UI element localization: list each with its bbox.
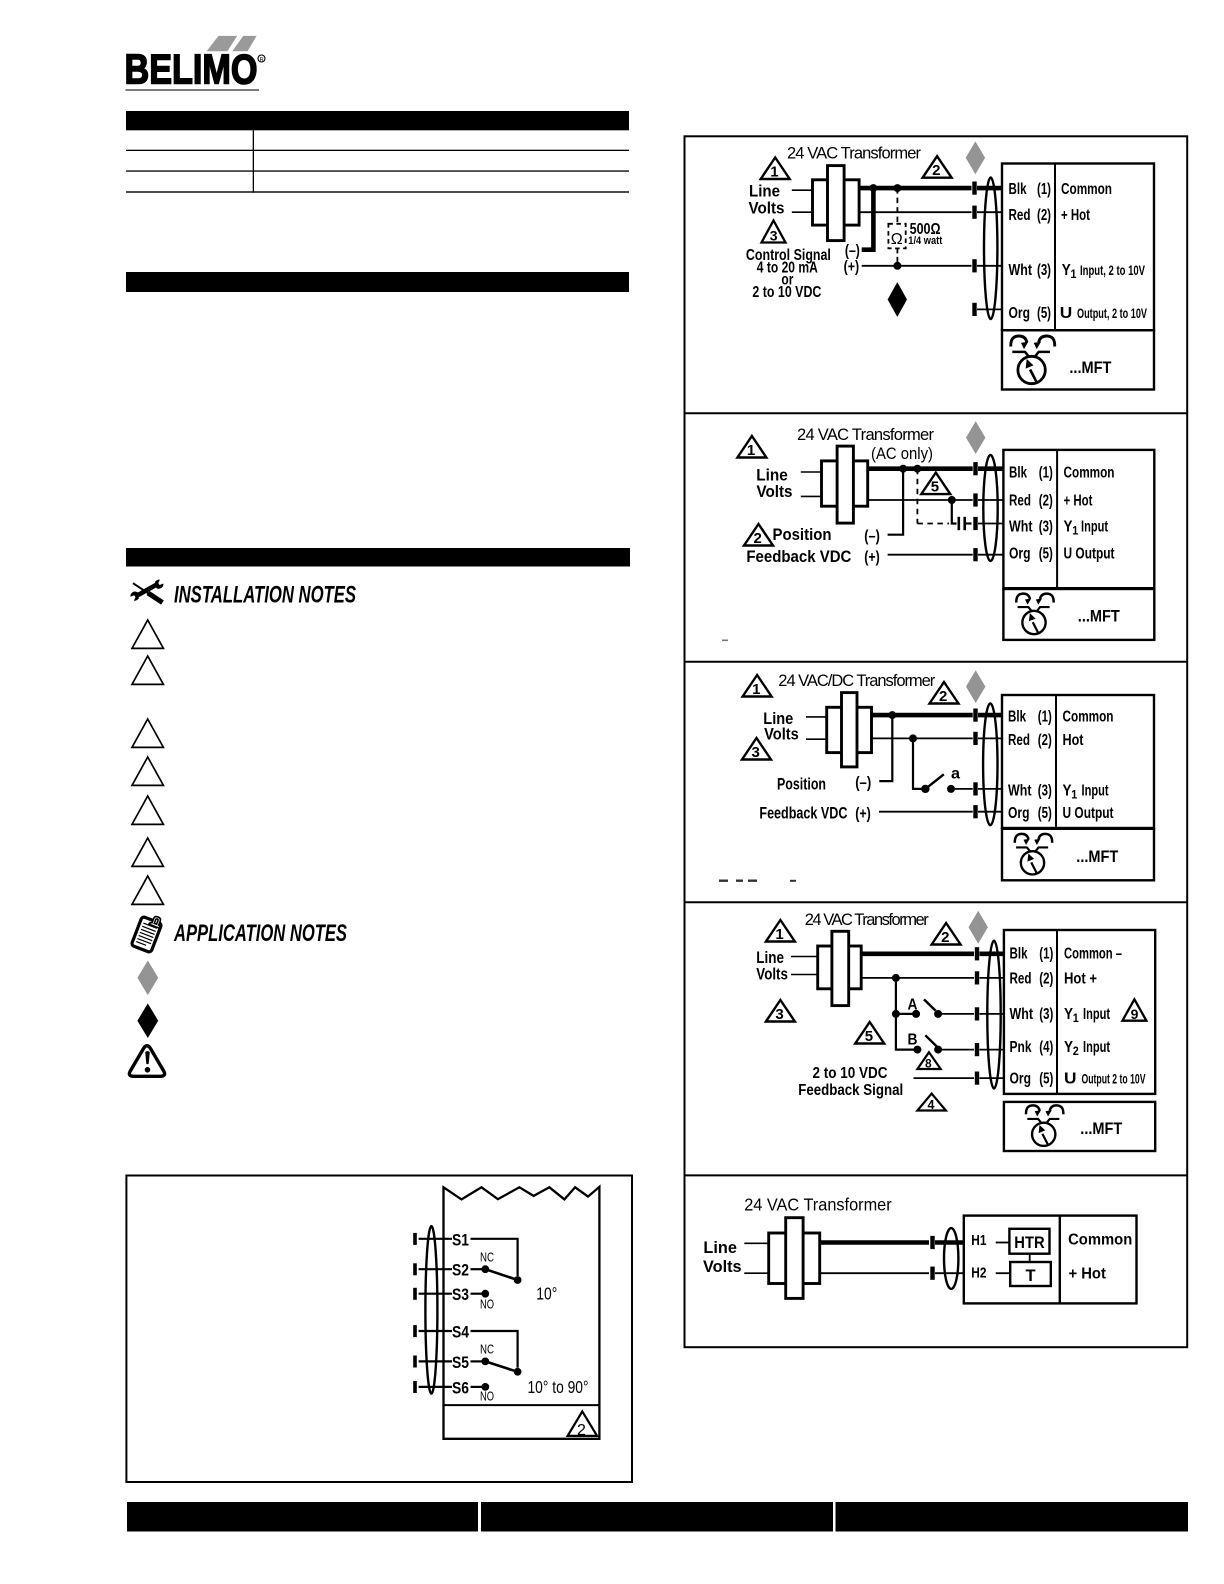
D1 black diamond bbox=[888, 282, 907, 317]
svg-text:HTR: HTR bbox=[1014, 1234, 1044, 1252]
wire S1 to switch 1 common bbox=[471, 1239, 518, 1276]
wiring diagrams outer frame bbox=[685, 136, 1188, 1347]
D4 junction dot b bbox=[892, 1010, 900, 1018]
note triangle 3 bbox=[132, 719, 163, 747]
svg-text:(5): (5) bbox=[1039, 1070, 1053, 1087]
svg-text:H2: H2 bbox=[971, 1265, 986, 1282]
terminal mark S4 bbox=[413, 1325, 417, 1337]
svg-text:S5: S5 bbox=[452, 1353, 469, 1372]
svg-text:9: 9 bbox=[1131, 1006, 1139, 1022]
wire S6 bbox=[419, 1386, 452, 1388]
actuator bottom divider line bbox=[444, 1404, 601, 1406]
D3 wire 24V common bbox=[872, 737, 973, 739]
svg-text:1: 1 bbox=[775, 926, 783, 943]
logo registered mark bbox=[258, 55, 265, 62]
svg-text:(+): (+) bbox=[864, 549, 880, 566]
D5 wire H2 to T bbox=[996, 1272, 1011, 1274]
actuator body with torn-paper top edge bbox=[444, 1187, 600, 1439]
D1 wire control plus bbox=[862, 265, 972, 267]
svg-text:(–): (–) bbox=[845, 242, 860, 259]
logo underline bbox=[126, 89, 260, 90]
note triangle 5 bbox=[132, 796, 163, 824]
D4 cable oval bbox=[987, 941, 1000, 1089]
svg-text:8: 8 bbox=[925, 1057, 932, 1071]
svg-text:Volts: Volts bbox=[756, 965, 788, 984]
svg-text:Input: Input bbox=[1082, 782, 1109, 799]
switch 2 NO contact dot bbox=[481, 1383, 489, 1391]
D4 wire to switch A bbox=[896, 1013, 913, 1015]
D1 MFT box bbox=[1002, 330, 1154, 389]
svg-text:APPLICATION NOTES: APPLICATION NOTES bbox=[173, 920, 347, 947]
footer bar segment 3 bbox=[836, 1502, 1189, 1532]
wire S2 bbox=[419, 1268, 452, 1270]
D5 wire 24V common bbox=[820, 1272, 929, 1274]
svg-text:5: 5 bbox=[865, 1028, 873, 1045]
wire S3 bbox=[419, 1293, 452, 1295]
D3 transformer T1 bbox=[827, 693, 872, 767]
svg-text:Common –: Common – bbox=[1064, 946, 1122, 963]
D4 wire 24V common bbox=[861, 977, 974, 979]
clipboard icon bbox=[131, 912, 164, 953]
svg-text:Input: Input bbox=[1083, 1039, 1110, 1056]
D2 triangle 5 bbox=[921, 473, 950, 496]
screwdriver bbox=[133, 583, 149, 594]
D4 wire stub red bbox=[980, 977, 1004, 979]
svg-text:1/4 watt: 1/4 watt bbox=[908, 235, 942, 247]
svg-text:Org: Org bbox=[1008, 805, 1030, 822]
D3 switch contact dot bbox=[947, 785, 955, 793]
svg-text:Common: Common bbox=[1061, 181, 1112, 198]
wire S5 stub bbox=[471, 1360, 483, 1362]
D1 transformer T1 bbox=[813, 166, 860, 241]
D5 transformer T1 bbox=[769, 1218, 820, 1299]
svg-text:...MFT: ...MFT bbox=[1076, 847, 1119, 866]
D4 wire feedback bbox=[914, 1077, 975, 1079]
svg-text:(5): (5) bbox=[1039, 546, 1053, 563]
D4 wire stub blk bbox=[980, 951, 1004, 956]
table row line 3 bbox=[126, 191, 629, 192]
terminal mark S6 bbox=[413, 1381, 417, 1393]
D5 wire H1 to HTR bbox=[996, 1242, 1010, 1244]
wire S5 bbox=[419, 1360, 452, 1362]
svg-text:NC: NC bbox=[480, 1249, 494, 1264]
svg-text:Volts: Volts bbox=[757, 482, 793, 501]
frame divider 4-5 bbox=[685, 1174, 1188, 1176]
D4 triangle 2 bbox=[932, 923, 961, 946]
D2 cable oval bbox=[983, 455, 997, 561]
note triangle 1 bbox=[132, 620, 163, 648]
D3 terminal block divider bbox=[1055, 695, 1057, 828]
svg-text:24 VAC Transformer: 24 VAC Transformer bbox=[805, 911, 930, 929]
switch 2 blade contact dot bbox=[514, 1368, 522, 1376]
BELIMO logo bbox=[125, 36, 266, 93]
svg-text:(–): (–) bbox=[855, 775, 871, 792]
svg-text:U Output: U Output bbox=[1063, 805, 1115, 822]
svg-text:10° to 90°: 10° to 90° bbox=[528, 1377, 589, 1397]
switch 2 blade bbox=[485, 1361, 517, 1371]
D4 triangle 9 bbox=[1122, 999, 1146, 1022]
D3 wire volts-in bbox=[806, 738, 827, 740]
D5 cable oval bbox=[944, 1228, 958, 1289]
note triangle 6 bbox=[132, 838, 163, 866]
D3 triangle 3 bbox=[742, 738, 771, 761]
D3 junction dot a bbox=[888, 711, 896, 719]
D2 wire 24V hot (thick) bbox=[868, 466, 973, 471]
D4 wire switch bus vertical bbox=[896, 978, 914, 1050]
svg-text:Input: Input bbox=[1083, 1006, 1110, 1023]
D3 switch blade bbox=[925, 774, 943, 789]
wrench jaw bottom-left bbox=[130, 591, 138, 600]
svg-text:Feedback Signal: Feedback Signal bbox=[798, 1082, 903, 1099]
svg-text:(3): (3) bbox=[1039, 1006, 1053, 1023]
svg-text:U Output: U Output bbox=[1064, 546, 1116, 563]
D2 terminal bar 5 bbox=[973, 548, 977, 561]
svg-text:1: 1 bbox=[1072, 524, 1078, 538]
D1 MFT dial icon bbox=[1011, 336, 1055, 384]
D3 terminal bar 2 bbox=[973, 732, 977, 745]
D2 wire feedback plus bbox=[888, 554, 973, 556]
D5 wire volts-in bbox=[744, 1272, 768, 1274]
svg-text:S3: S3 bbox=[452, 1285, 469, 1304]
svg-text:(+): (+) bbox=[855, 806, 871, 823]
D3 wire stub red bbox=[978, 737, 1002, 739]
svg-text:(1): (1) bbox=[1039, 464, 1053, 481]
D4 terminal block bbox=[1004, 930, 1155, 1094]
D1 triangle 3 bbox=[762, 221, 786, 244]
D5 wire HTR to T bbox=[1029, 1254, 1031, 1262]
svg-text:T: T bbox=[1026, 1267, 1036, 1285]
D4 triangle 5 bbox=[855, 1022, 884, 1045]
svg-text:Wht: Wht bbox=[1008, 782, 1032, 799]
D1 triangle 2 bbox=[923, 156, 952, 179]
D3 triangle 2 bbox=[930, 682, 959, 705]
svg-text:Org: Org bbox=[1009, 305, 1031, 322]
svg-text:Hot: Hot bbox=[1063, 732, 1085, 749]
terminal mark S5 bbox=[413, 1356, 417, 1368]
D2 wire line-in bbox=[801, 471, 822, 473]
D4 wire line-in bbox=[791, 956, 818, 958]
svg-text:24 VAC Transformer: 24 VAC Transformer bbox=[787, 145, 922, 163]
section bar 3 (redacted) bbox=[126, 548, 630, 567]
D3 wire position minus bbox=[879, 715, 892, 781]
svg-text:Blk: Blk bbox=[1009, 464, 1027, 481]
svg-text:U: U bbox=[1064, 1070, 1077, 1087]
svg-text:Wht: Wht bbox=[1010, 1006, 1034, 1023]
svg-text:5: 5 bbox=[931, 479, 939, 496]
svg-text:2 to 10 VDC: 2 to 10 VDC bbox=[752, 284, 821, 301]
D2 junction dot b bbox=[913, 465, 921, 473]
installation tools icon bbox=[130, 580, 163, 603]
svg-text:24 VAC Transformer: 24 VAC Transformer bbox=[744, 1194, 892, 1214]
D2 wire feedback tap bbox=[952, 500, 957, 524]
D4 switch B common dot bbox=[913, 1046, 921, 1054]
svg-text:(1): (1) bbox=[1038, 709, 1052, 726]
svg-text:(5): (5) bbox=[1037, 305, 1051, 322]
footer bar segment 1 bbox=[127, 1502, 478, 1532]
D3 wire 24V hot (thick) bbox=[872, 713, 973, 718]
svg-text:(AC only): (AC only) bbox=[871, 445, 933, 463]
svg-text:10°: 10° bbox=[536, 1284, 557, 1304]
table column divider bbox=[253, 130, 254, 192]
svg-text:(4): (4) bbox=[1039, 1039, 1053, 1056]
D5 wire stub h2 bbox=[935, 1272, 964, 1274]
svg-text:(2): (2) bbox=[1039, 971, 1053, 988]
header bar (redacted title) bbox=[126, 111, 629, 130]
svg-text:Red: Red bbox=[1010, 971, 1032, 988]
svg-text:2: 2 bbox=[932, 162, 940, 179]
D2 terminal bar 2 bbox=[973, 493, 977, 506]
svg-text:Wht: Wht bbox=[1009, 262, 1033, 279]
svg-text:+ Hot: + Hot bbox=[1064, 492, 1093, 509]
svg-text:Red: Red bbox=[1009, 492, 1031, 509]
D5 wire 24V hot (thick) bbox=[820, 1240, 929, 1245]
D4 MFT dial icon bbox=[1026, 1105, 1063, 1146]
D2 splice bar 1 bbox=[958, 517, 961, 530]
D2 terminal block divider bbox=[1056, 450, 1058, 588]
logo stripe 1 bbox=[207, 36, 238, 51]
svg-text:(2): (2) bbox=[1038, 732, 1052, 749]
svg-text:24 VAC Transformer: 24 VAC Transformer bbox=[797, 426, 935, 444]
D4 terminal bar 1 bbox=[975, 947, 979, 960]
svg-text:Volts: Volts bbox=[764, 725, 799, 744]
section bar 2 (redacted) bbox=[126, 272, 629, 292]
svg-text:Output 2 to 10V: Output 2 to 10V bbox=[1082, 1071, 1146, 1086]
switch 1 blade bbox=[485, 1269, 517, 1280]
D5 terminal block bbox=[964, 1216, 1137, 1304]
svg-text:B: B bbox=[908, 1031, 918, 1048]
svg-text:NC: NC bbox=[480, 1342, 494, 1357]
D3 MFT box bbox=[1002, 829, 1154, 881]
D4 terminal bar 2 bbox=[975, 971, 979, 984]
svg-text:(1): (1) bbox=[1037, 181, 1051, 198]
D3 wire stub blk bbox=[978, 713, 1002, 718]
D4 wire switch A to terminal bbox=[942, 1013, 974, 1015]
svg-text:S6: S6 bbox=[452, 1378, 469, 1397]
svg-text:2: 2 bbox=[941, 929, 949, 946]
D5 thermostat T box bbox=[1010, 1262, 1051, 1286]
svg-text:Common: Common bbox=[1064, 464, 1115, 481]
D4 terminal bar 4 bbox=[975, 1043, 979, 1056]
D1 triangle 1 bbox=[761, 158, 790, 181]
svg-text:BELIMO: BELIMO bbox=[125, 46, 258, 93]
D1 wire control minus (thick L) bbox=[862, 188, 874, 250]
frame divider 3-4 bbox=[685, 901, 1188, 903]
D4 junction dot a bbox=[892, 974, 900, 982]
D1 wire volts-in bbox=[792, 211, 813, 213]
D4 wire volts-in bbox=[791, 974, 818, 976]
D4 wire stub org bbox=[980, 1077, 1004, 1079]
D1 cable oval bbox=[984, 178, 997, 320]
D4 gray diamond bbox=[969, 911, 988, 944]
D1 gray diamond bbox=[966, 141, 985, 174]
D2 MFT dial icon bbox=[1016, 594, 1053, 635]
D2 wire stub org bbox=[978, 554, 1003, 556]
svg-text:U: U bbox=[1060, 305, 1073, 322]
svg-text:(–): (–) bbox=[864, 528, 880, 545]
wire S4 to switch 2 common bbox=[471, 1331, 518, 1368]
svg-text:a: a bbox=[951, 766, 960, 783]
D2 wire stub wht bbox=[978, 523, 1003, 525]
svg-text:3: 3 bbox=[775, 1006, 783, 1023]
D2 gray diamond bbox=[966, 421, 985, 454]
svg-text:3: 3 bbox=[752, 744, 760, 761]
svg-text:(+): (+) bbox=[844, 258, 860, 275]
D3 terminal bar 1 bbox=[973, 709, 977, 722]
switch 1 NO contact dot bbox=[481, 1290, 489, 1298]
cable bundle oval (aux) bbox=[425, 1226, 437, 1394]
svg-text:Red: Red bbox=[1009, 207, 1031, 224]
black diamond note symbol bbox=[137, 1003, 158, 1038]
D3 wire switch feed bbox=[913, 738, 922, 789]
D1 resistor 500 ohm (dashed box) bbox=[888, 224, 905, 249]
D1 wire stub wht bbox=[977, 265, 1002, 267]
svg-text:Org: Org bbox=[1010, 1070, 1032, 1087]
D4 switch A blade bbox=[924, 999, 936, 1010]
D3 wire feedback plus bbox=[879, 811, 973, 813]
D3 junction dot b bbox=[909, 734, 917, 742]
D1 junction dot b bbox=[893, 184, 901, 192]
D2 dashed wire vertical bbox=[916, 469, 918, 524]
svg-text:4: 4 bbox=[928, 1098, 935, 1112]
D1 wire line-in bbox=[792, 189, 813, 191]
switch 1 NC contact dot bbox=[481, 1265, 489, 1273]
wire S2 stub bbox=[471, 1268, 483, 1270]
svg-text:Volts: Volts bbox=[749, 199, 785, 218]
wire S4 bbox=[419, 1330, 452, 1332]
D1 terminal bar 5 bbox=[972, 303, 976, 316]
D4 triangle 8 bbox=[917, 1052, 940, 1070]
D1 resistor dashed lead lower bbox=[896, 248, 898, 265]
D3 cable oval bbox=[983, 703, 997, 825]
D2 wire stub red bbox=[978, 499, 1003, 501]
svg-text:1: 1 bbox=[752, 681, 760, 698]
svg-text:2: 2 bbox=[754, 530, 762, 547]
svg-text:1: 1 bbox=[747, 442, 755, 459]
D4 terminal block divider bbox=[1056, 930, 1058, 1094]
D2 triangle 1 bbox=[737, 436, 766, 459]
D2 wire 24V common bbox=[868, 499, 973, 501]
svg-text:Input, 2 to 10V: Input, 2 to 10V bbox=[1080, 263, 1145, 278]
wrench shaft bbox=[136, 584, 157, 596]
svg-text:S4: S4 bbox=[452, 1323, 469, 1342]
D2 wire stub blk bbox=[978, 466, 1003, 471]
svg-text:(1): (1) bbox=[1039, 946, 1053, 963]
svg-text:Org: Org bbox=[1009, 546, 1031, 563]
D1 terminal bar 3 bbox=[972, 259, 976, 272]
svg-text:Ω: Ω bbox=[891, 231, 903, 248]
svg-text:Position: Position bbox=[777, 774, 826, 793]
wire S6 stub bbox=[471, 1386, 483, 1388]
D2 splice bar 2 bbox=[963, 517, 966, 530]
D4 wire stub pnk bbox=[980, 1049, 1004, 1051]
note triangle 2 bbox=[132, 656, 163, 684]
svg-text:R: R bbox=[260, 57, 264, 63]
D5 terminal block divider bbox=[1059, 1216, 1061, 1304]
svg-text:NO: NO bbox=[480, 1389, 494, 1404]
D3 wire line-in bbox=[806, 716, 827, 718]
D4 wire 24V hot (thick) bbox=[861, 951, 974, 956]
svg-text:24 VAC/DC Transformer: 24 VAC/DC Transformer bbox=[778, 672, 936, 690]
svg-text:2: 2 bbox=[939, 688, 947, 705]
svg-text:Line: Line bbox=[703, 1238, 737, 1257]
svg-text:(3): (3) bbox=[1038, 782, 1052, 799]
svg-text:(2): (2) bbox=[1039, 492, 1053, 509]
footer bar segment 2 bbox=[481, 1502, 833, 1532]
wire S3 stub bbox=[471, 1293, 483, 1295]
D1 terminal bar 1 bbox=[972, 182, 976, 195]
D2 triangle 2 bbox=[744, 524, 773, 547]
svg-text:...MFT: ...MFT bbox=[1069, 358, 1112, 377]
svg-text:Volts: Volts bbox=[703, 1257, 742, 1276]
D5 wire stub h1 bbox=[935, 1240, 964, 1245]
D1 wire 24V common bbox=[859, 211, 971, 213]
D3 terminal bar 5 bbox=[973, 805, 977, 818]
svg-text:Output, 2 to 10V: Output, 2 to 10V bbox=[1077, 306, 1147, 321]
table row line 2 bbox=[126, 170, 629, 171]
D1 wire 24V hot (thick) bbox=[859, 186, 971, 191]
D2 junction dot c bbox=[948, 496, 956, 504]
svg-text:2: 2 bbox=[1073, 1044, 1079, 1058]
svg-text:S2: S2 bbox=[452, 1261, 469, 1280]
svg-text:Red: Red bbox=[1008, 732, 1030, 749]
D2 MFT box bbox=[1003, 589, 1154, 640]
D1 junction dot a bbox=[869, 184, 877, 192]
D1 wire stub blk bbox=[977, 186, 1002, 191]
svg-text:Wht: Wht bbox=[1009, 519, 1033, 536]
D3 switch common dot bbox=[921, 785, 929, 793]
D2 transformer T1 bbox=[822, 446, 868, 523]
D3 triangle 1 bbox=[743, 675, 772, 698]
D4 terminal bar 3 bbox=[975, 1007, 979, 1020]
terminal mark S1 bbox=[413, 1233, 417, 1245]
D4 switch A common dot bbox=[912, 1010, 920, 1018]
triangle 2 note (aux) bbox=[568, 1411, 598, 1439]
svg-text:+ Hot: + Hot bbox=[1069, 1265, 1106, 1282]
wrench jaw top-right bbox=[155, 580, 163, 589]
switch 2 NC contact dot bbox=[481, 1358, 489, 1366]
D3 MFT dial icon bbox=[1015, 834, 1052, 875]
svg-text:2 to 10 VDC: 2 to 10 VDC bbox=[813, 1065, 888, 1082]
D1 wire stub red bbox=[977, 211, 1002, 213]
svg-text:(2): (2) bbox=[1037, 207, 1051, 224]
D4 terminal bar 5 bbox=[975, 1072, 979, 1085]
frame divider 2-3 bbox=[685, 661, 1188, 663]
svg-text:1: 1 bbox=[1073, 1011, 1079, 1025]
D3 stray marks bbox=[719, 880, 796, 882]
D3 wire stub org bbox=[978, 811, 1002, 813]
svg-text:1: 1 bbox=[770, 164, 778, 181]
D2 wire splice to terminal bbox=[966, 522, 972, 524]
note triangle 4 bbox=[132, 757, 163, 785]
svg-text:(3): (3) bbox=[1039, 519, 1053, 536]
D4 switch A contact dot bbox=[934, 1010, 942, 1018]
D4 switch B blade bbox=[925, 1035, 937, 1046]
D4 transformer T1 bbox=[818, 931, 862, 1005]
D2 junction dot a bbox=[899, 465, 907, 473]
svg-text:Pnk: Pnk bbox=[1010, 1039, 1032, 1056]
svg-text:3: 3 bbox=[770, 228, 778, 244]
D1 junction dot c bbox=[893, 262, 901, 270]
svg-text:+ Hot: + Hot bbox=[1061, 207, 1090, 224]
terminal mark S2 bbox=[413, 1263, 417, 1275]
D3 wire contact to terminal bbox=[955, 788, 973, 790]
D2 terminal bar 1 bbox=[973, 462, 977, 475]
svg-text:...MFT: ...MFT bbox=[1080, 1119, 1123, 1138]
D5 terminal bar 1 bbox=[930, 1236, 934, 1249]
svg-text:(3): (3) bbox=[1037, 262, 1051, 279]
D4 triangle 3 bbox=[766, 1000, 795, 1023]
svg-text:Blk: Blk bbox=[1008, 709, 1026, 726]
